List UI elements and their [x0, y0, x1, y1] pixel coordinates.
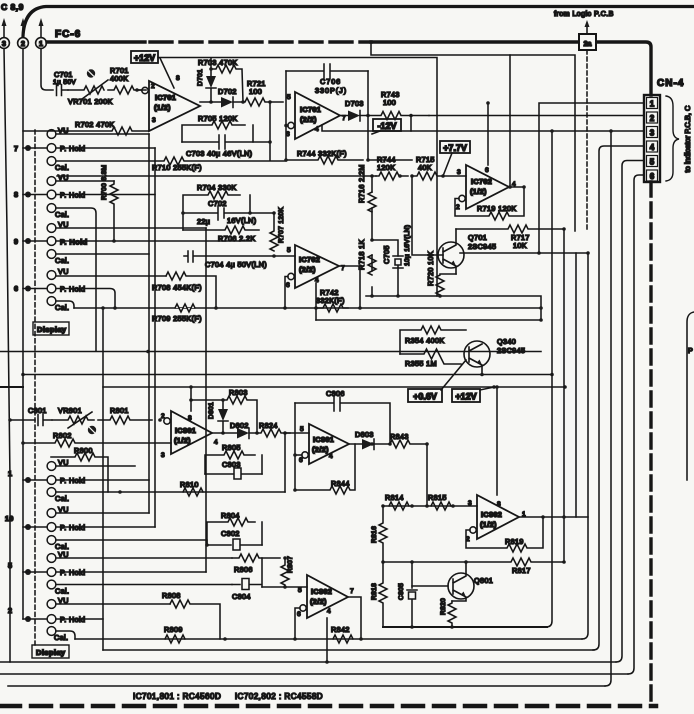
resistor R801: [98, 406, 152, 424]
left dashed rail: [34, 130, 36, 645]
node junction: [562, 560, 566, 564]
svg-text:(1/2): (1/2): [480, 520, 497, 529]
connector arrow from logic pcb: [585, 20, 590, 34]
wire IC802(1/2) output: [519, 516, 588, 518]
svg-text:P. Hold: P. Hold: [60, 238, 88, 247]
svg-text:IC701,801 : RC4560D IC70: IC701,801 : RC4560D IC702,802 : RC4558D: [133, 692, 323, 701]
svg-text:Cal.: Cal.: [55, 494, 69, 503]
wire IC802(1/2) pin8 feed: [496, 387, 498, 495]
svg-text:R805: R805: [222, 443, 241, 452]
wire left frame x103: [102, 308, 104, 650]
node junction: [366, 158, 370, 162]
wire IC702(2/2) pin4 stub: [315, 283, 317, 320]
resistor R803 feedback: [191, 388, 257, 433]
switch group 9: [14, 220, 240, 265]
node junction: [396, 294, 400, 298]
svg-text:CN-4: CN-4: [657, 78, 684, 89]
resistor R809: [164, 625, 185, 643]
svg-text:4: 4: [329, 453, 333, 460]
diode D703: [340, 99, 364, 121]
wire IC702(1/2) output: [509, 186, 524, 188]
wire IC702(2/2) output down: [339, 266, 360, 308]
connector CN-4 pin 1: [647, 98, 658, 109]
node junction: [563, 385, 567, 389]
connector CN-4 pin 2: [647, 112, 658, 123]
svg-text:R707 120K: R707 120K: [278, 207, 285, 243]
resistor R806: [232, 554, 280, 574]
node junction: [425, 442, 429, 446]
wire base feed Q701: [412, 176, 443, 255]
svg-text:(1/2): (1/2): [154, 103, 171, 112]
node junction: [480, 373, 484, 377]
resistor R816 vertical: [371, 506, 387, 562]
svg-text:3: 3: [468, 500, 472, 507]
node junction: [284, 158, 288, 162]
svg-text:C704 4μ 50V(LN): C704 4μ 50V(LN): [205, 260, 267, 269]
switch group 2: [8, 596, 170, 642]
resistor R743 100: [360, 90, 429, 120]
node junction: [398, 174, 402, 178]
node junction: [223, 637, 227, 641]
bus vertical x588: [582, 253, 588, 639]
connector pin arrow 3: [2, 18, 7, 37]
resistor R708 454K(F): [152, 272, 216, 308]
capacitor C702: [183, 199, 274, 226]
connector CN-4 pin 4: [647, 141, 658, 152]
connector pin arrow 2: [21, 18, 26, 37]
resistor R818 vertical: [371, 562, 387, 627]
wire IC802(2/2) pin4 down: [326, 618, 328, 662]
resistor R720 10K vertical: [426, 251, 456, 296]
svg-text:2a: 2a: [584, 41, 592, 48]
svg-text:R824: R824: [259, 421, 278, 430]
svg-text:16V(LN): 16V(LN): [227, 216, 257, 225]
svg-text:R354 400K: R354 400K: [405, 336, 445, 345]
resistor R716 2.2M vertical: [357, 164, 376, 212]
node junction: [370, 174, 374, 178]
svg-text:5: 5: [650, 158, 655, 167]
resistor R802: [23, 431, 171, 447]
diode D802: [212, 421, 249, 439]
svg-text:FC-6: FC-6: [55, 29, 81, 40]
connector circle 3: [0, 38, 9, 49]
power label +7.7V: [440, 141, 470, 176]
resistor R717 10K: [456, 225, 564, 250]
op-amp IC701 (1/2): [142, 75, 200, 131]
svg-text:R704 330K: R704 330K: [197, 183, 237, 192]
wire Cal1 R810 line: [56, 491, 285, 493]
wire IC801 pin8 feed: [190, 387, 192, 411]
svg-text:2SC945: 2SC945: [497, 346, 525, 355]
svg-text:C806: C806: [326, 389, 345, 398]
svg-text:D801: D801: [208, 402, 215, 419]
svg-text:R703 470K: R703 470K: [198, 58, 238, 67]
wire R806 link: [284, 557, 286, 559]
wire R843 down to R815 row: [426, 444, 428, 506]
capacitor C802: [207, 529, 262, 550]
diode D801 vertical: [208, 400, 228, 433]
svg-text:D703: D703: [345, 99, 364, 108]
svg-text:R718 1K: R718 1K: [357, 239, 366, 270]
svg-text:4: 4: [650, 143, 655, 152]
node junction: [209, 100, 213, 104]
capacitor C704: [184, 251, 295, 269]
svg-text:from Logic P.C.B: from Logic P.C.B: [554, 9, 614, 18]
svg-text:(1/2): (1/2): [174, 436, 191, 445]
svg-text:IC802: IC802: [481, 510, 502, 519]
resistor R800: [51, 446, 108, 492]
resistor R820 vertical: [440, 598, 456, 627]
svg-text:Q340: Q340: [497, 337, 516, 346]
wire tap to -12V rail: [410, 116, 412, 132]
svg-text:R803: R803: [229, 388, 248, 397]
svg-text:IC701: IC701: [155, 93, 176, 102]
bus vertical x564: [563, 229, 565, 562]
resistor R810: [180, 480, 203, 496]
svg-text:D802: D802: [230, 421, 249, 430]
svg-text:R702 470K: R702 470K: [75, 120, 115, 129]
node junction: [522, 185, 526, 189]
wire R824 to pin5 and down: [285, 433, 309, 492]
node junction: [410, 560, 414, 564]
svg-text:2: 2: [161, 413, 165, 420]
power label -12V: [372, 119, 401, 134]
svg-text:2: 2: [456, 204, 460, 211]
svg-text:6: 6: [650, 172, 655, 181]
node junction: [268, 140, 272, 144]
svg-text:6: 6: [286, 282, 290, 289]
brace right of CN-4: [666, 96, 679, 181]
svg-text:Cal.: Cal.: [55, 587, 69, 596]
svg-text:(2/2): (2/2): [299, 265, 316, 274]
svg-text:10K: 10K: [513, 241, 527, 250]
node junction: [135, 88, 139, 92]
svg-text:C802: C802: [221, 529, 240, 538]
wire CN-4 pin1 lead: [539, 103, 644, 253]
svg-text:D701: D701: [197, 69, 204, 86]
svg-text:R844: R844: [331, 479, 350, 488]
node junction: [268, 100, 272, 104]
node junction: [101, 306, 105, 310]
node junction: [359, 637, 363, 641]
node junction: [586, 251, 590, 255]
svg-text:R709 255K(F): R709 255K(F): [152, 314, 202, 323]
svg-text:R816: R816: [371, 526, 378, 543]
rail y375: [23, 374, 552, 376]
node junction: [158, 418, 162, 422]
node junction: [370, 442, 374, 446]
wire from connector circle 1: [41, 49, 53, 91]
svg-text:R817: R817: [512, 566, 531, 575]
svg-text:10: 10: [5, 514, 14, 523]
rail y320: [316, 319, 541, 321]
transistor Q801: [448, 562, 493, 601]
svg-text:C705: C705: [382, 245, 391, 264]
svg-text:6: 6: [485, 167, 489, 174]
node junction: [21, 441, 25, 445]
wire +12V to IC701 pin8: [160, 58, 174, 88]
svg-text:VR701 200K: VR701 200K: [68, 97, 113, 106]
op-amp IC702 (2/2): [286, 245, 345, 289]
switch group 6: [14, 267, 166, 312]
svg-text:C702: C702: [208, 199, 227, 208]
svg-text:400K: 400K: [110, 74, 128, 83]
rail mid y176: [57, 175, 376, 177]
svg-text:R700 6.8M: R700 6.8M: [101, 165, 108, 200]
bottom of RC box y627: [383, 626, 547, 628]
resistor R843: [374, 432, 427, 448]
node junction: [410, 625, 414, 629]
resistor R710 255K(F) on cal rail: [57, 157, 412, 172]
svg-text:C703 40μ 46V(LN): C703 40μ 46V(LN): [186, 149, 252, 158]
svg-text:R800: R800: [74, 446, 93, 455]
wire diagonal to +0.6V: [441, 360, 466, 390]
wire feedback right IC701(2/2): [367, 71, 369, 160]
svg-text:100: 100: [249, 87, 262, 96]
node junction: [450, 625, 454, 629]
node junction: [283, 585, 287, 589]
resistor R707 120K vertical: [270, 207, 285, 251]
transistor Q701 2SC945: [438, 229, 496, 274]
rail y387: [103, 386, 565, 388]
node junction: [451, 504, 455, 508]
svg-text:R820: R820: [440, 598, 447, 615]
node junction: [8, 418, 12, 422]
trimmer VR801: [52, 406, 96, 434]
connector CN-4 body: [644, 95, 660, 182]
switch group 1: [8, 458, 149, 503]
svg-text:R818: R818: [371, 583, 378, 600]
svg-text:-12V: -12V: [377, 121, 396, 131]
connector CN-4 pin 5: [647, 156, 658, 167]
resistor R744 120K: [376, 155, 408, 180]
transistor Q340 2SC945: [464, 337, 525, 373]
svg-text:1: 1: [650, 100, 655, 109]
node junction: [410, 504, 414, 508]
resistor R700 6.8M vertical: [101, 165, 118, 241]
rail y351: [0, 351, 541, 353]
svg-text:120K: 120K: [377, 163, 395, 172]
resistor R804: [207, 511, 262, 545]
svg-text:(2/2): (2/2): [312, 445, 329, 454]
svg-text:330P(J): 330P(J): [315, 86, 347, 95]
wire output to C703: [269, 102, 271, 160]
resistor R702 470K: [23, 120, 149, 135]
svg-text:5: 5: [300, 426, 304, 433]
svg-text:R819: R819: [505, 537, 524, 546]
svg-text:D803: D803: [355, 430, 374, 439]
svg-text:VU: VU: [58, 267, 69, 276]
resistor R742 332K(F): [316, 288, 348, 312]
node junction: [255, 431, 259, 435]
resistor R844: [295, 444, 355, 494]
svg-text:2: 2: [650, 114, 655, 123]
bottom line y686: [8, 685, 605, 687]
wire pin6 loop IC802(2/2): [295, 608, 300, 639]
svg-text:R810: R810: [180, 480, 199, 489]
svg-text:C804: C804: [232, 592, 251, 601]
wire output rail to CN-4 pin2: [429, 115, 644, 117]
node junction: [146, 350, 150, 354]
wire C705 branch: [372, 240, 398, 296]
node junction: [221, 431, 225, 435]
svg-text:+0.6V: +0.6V: [413, 392, 437, 402]
svg-text:C803: C803: [222, 460, 241, 469]
wire right border thick dashed below CN-4: [649, 182, 652, 700]
wire C806 left leg: [294, 403, 296, 490]
resistor R354 400K: [400, 326, 466, 354]
svg-text:(2/2): (2/2): [310, 597, 327, 606]
node junction: [221, 398, 225, 402]
node junction: [189, 385, 193, 389]
svg-text:R719 120K: R719 120K: [477, 204, 517, 213]
svg-text:Q801: Q801: [474, 576, 493, 585]
svg-text:8: 8: [188, 415, 192, 422]
rail R814 row: [383, 505, 477, 507]
wire CN-4 pin3 lead to -12V rail: [322, 125, 644, 131]
svg-text:Q701: Q701: [468, 233, 487, 242]
wire bus drop x611: [605, 131, 611, 686]
svg-text:2: 2: [8, 606, 12, 615]
wire CN-4 pin5 lead: [616, 161, 644, 663]
node junction: [283, 556, 287, 560]
switch group 5: [8, 550, 232, 596]
node junction: [241, 100, 245, 104]
wire CN-4 pin6 lead: [628, 175, 644, 674]
svg-text:6: 6: [14, 284, 18, 293]
svg-text:IC701: IC701: [300, 105, 321, 114]
svg-text:C805: C805: [398, 583, 405, 600]
svg-text:2SC945: 2SC945: [468, 242, 496, 251]
svg-text:R809: R809: [164, 625, 183, 634]
capacitor C803: [205, 460, 262, 479]
node junction: [293, 488, 297, 492]
node junction: [358, 306, 362, 310]
op-amp IC701 (2/2): [286, 92, 346, 139]
rail y308: [74, 307, 541, 309]
svg-text:R843: R843: [390, 432, 409, 441]
svg-text:3: 3: [457, 169, 461, 176]
diode D803: [349, 430, 374, 450]
capacitor C801: [10, 406, 52, 426]
svg-text:6: 6: [299, 457, 303, 464]
left edge stub: [0, 386, 23, 388]
svg-text:R710 255K(F): R710 255K(F): [152, 163, 202, 172]
svg-text:2: 2: [151, 83, 155, 90]
node junction: [21, 373, 25, 377]
resistor R817 row: [383, 558, 564, 575]
node junction: [283, 431, 287, 435]
resistor R805 feedback: [205, 443, 262, 474]
svg-text:IC702: IC702: [299, 255, 320, 264]
svg-text:6: 6: [297, 611, 301, 618]
svg-text:8: 8: [497, 501, 501, 508]
resistor R824: [249, 421, 290, 437]
svg-text:+12V: +12V: [455, 392, 476, 402]
bus vertical x576: [575, 253, 577, 517]
svg-text:C 8,9: C 8,9: [1, 2, 24, 12]
node junction: [293, 453, 297, 457]
wire dashed below 2a: [586, 50, 588, 230]
svg-text:IC801: IC801: [313, 435, 334, 444]
svg-text:9: 9: [14, 237, 18, 246]
resistor R704 330K: [183, 183, 250, 230]
resistor R706 2.2K: [183, 226, 259, 243]
svg-text:7: 7: [350, 588, 354, 595]
wire Q701 base right rail: [460, 252, 588, 254]
node junction: [248, 211, 252, 215]
node junction: [464, 560, 468, 564]
left rail vertical from circle 3: [4, 49, 10, 663]
bus vertical x552: [546, 131, 552, 627]
node junction: [272, 211, 276, 215]
resistor R355 1M: [400, 349, 461, 368]
wire to pin2: [137, 89, 141, 91]
svg-text:22μ: 22μ: [197, 217, 210, 226]
wire top border line with arc: [23, 7, 694, 37]
node junction: [293, 637, 297, 641]
bottom line y674: [0, 673, 628, 675]
resistor R819 feedback: [466, 517, 543, 552]
svg-text:Cal.: Cal.: [54, 633, 68, 642]
svg-text:R807: R807: [287, 556, 294, 573]
diode D702: [200, 87, 237, 108]
node junction: [118, 490, 122, 494]
node junction: [381, 504, 385, 508]
resistor R815: [428, 493, 451, 510]
svg-text:R808: R808: [162, 591, 181, 600]
svg-text:10μ 16V(LN): 10μ 16V(LN): [404, 225, 411, 266]
resistor R814: [385, 493, 409, 510]
capacitor C701: [53, 70, 76, 96]
svg-text:R806: R806: [234, 565, 253, 574]
svg-text:IC702: IC702: [471, 177, 492, 186]
label Display upper: [33, 322, 69, 335]
resistor R718 1K vertical: [357, 239, 376, 275]
node junction: [492, 385, 496, 389]
wire pin6 loop IC801(2/2): [295, 454, 302, 456]
svg-text:332K(F): 332K(F): [316, 296, 345, 305]
node junction: [539, 318, 543, 322]
op-amp IC802 (1/2): [466, 495, 526, 543]
svg-text:Cal.: Cal.: [55, 163, 69, 172]
wire into IC802(2/2) pin5: [262, 586, 307, 588]
svg-text:R814: R814: [385, 493, 404, 502]
connector pin arrow 1: [39, 18, 44, 37]
svg-text:R801: R801: [110, 406, 129, 415]
svg-text:D702: D702: [218, 87, 237, 96]
svg-text:R744 332K(F): R744 332K(F): [297, 149, 347, 158]
svg-text:VR801: VR801: [58, 406, 82, 415]
connector circle 2: [18, 38, 29, 49]
svg-text:4: 4: [315, 126, 319, 133]
svg-text:1μ 50V: 1μ 50V: [53, 79, 76, 86]
op-amp IC801 (1/2): [161, 411, 218, 459]
wire supply drop x510: [509, 55, 511, 187]
resistor R842: [331, 625, 353, 643]
svg-text:5: 5: [287, 247, 291, 254]
svg-text:P: P: [688, 346, 693, 355]
svg-text:C706: C706: [320, 77, 341, 86]
svg-text:IC801: IC801: [175, 426, 196, 435]
svg-text:3: 3: [161, 452, 165, 459]
bottom line y662: [0, 661, 616, 663]
svg-text:8: 8: [14, 190, 18, 199]
bottom line y639: [75, 638, 582, 640]
svg-text:Display: Display: [37, 325, 67, 334]
wire left verticals lower: [149, 134, 206, 572]
svg-text:R708 454K(F): R708 454K(F): [152, 283, 202, 292]
